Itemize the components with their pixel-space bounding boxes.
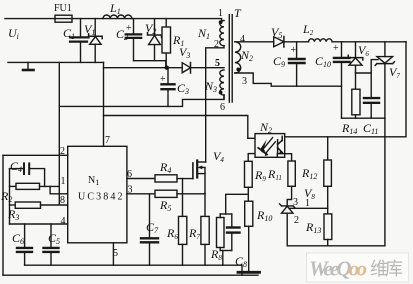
svg-text:3: 3	[293, 197, 298, 208]
wire: pin 3 secondary return	[235, 73, 342, 86]
svg-text:1: 1	[61, 176, 66, 187]
capacitor C6	[17, 224, 32, 265]
wire: output right rail and long return	[285, 42, 406, 137]
wire: input return	[8, 61, 104, 63]
wire: rail 2 / pin 7 VCC line	[103, 62, 105, 146]
svg-text:WeeQoo: WeeQoo	[309, 257, 367, 281]
capacitor C5	[44, 224, 59, 265]
capacitor C9	[289, 42, 305, 86]
resistor R10	[245, 187, 253, 272]
resistor R3	[10, 202, 68, 208]
wire: TL431 ref line	[290, 207, 328, 209]
capacitor C4	[10, 163, 45, 186]
resistor R5	[127, 190, 205, 197]
wire: clamp rail from pin7 rail	[104, 67, 167, 69]
wire: V6 V7 C11 link	[356, 60, 379, 73]
resistor R13	[324, 208, 332, 246]
diode V1 (zener)	[89, 19, 103, 63]
node: clamp junction dot	[165, 66, 169, 70]
node: dot pin 1	[219, 20, 223, 24]
transformer winding N3	[220, 70, 224, 95]
capacitor C2	[126, 19, 142, 61]
wire: output box bottom bus	[342, 117, 385, 119]
diode V7 (zener)	[375, 42, 394, 118]
svg-text:5: 5	[113, 248, 118, 259]
diode V5	[274, 37, 309, 48]
svg-text:6: 6	[127, 169, 132, 180]
wire: AC input top rail	[5, 19, 222, 21]
wire: C2 V2 bottoms to clamp node	[134, 61, 166, 68]
wire: pin 2 line to left border	[3, 154, 68, 156]
wire: C3 ground line with step to pin 6	[59, 95, 224, 106]
transformer winding N1	[220, 21, 224, 46]
wire: pin 5 stub	[112, 243, 114, 265]
capacitor C1	[70, 19, 89, 63]
svg-text:2: 2	[214, 39, 219, 50]
svg-text:3: 3	[128, 185, 133, 196]
wire: left border down to bottom	[2, 155, 4, 275]
resistor R8 and capacitor C8 parallel	[217, 194, 249, 265]
svg-text:6: 6	[220, 102, 225, 113]
diode V3	[167, 63, 224, 74]
svg-text:4: 4	[240, 34, 245, 45]
svg-text:+: +	[291, 45, 297, 56]
capacitor C3	[162, 68, 175, 107]
svg-text:3: 3	[242, 76, 247, 87]
wire: ground bus	[25, 265, 242, 275]
wire: aux line B to optocoupler	[104, 116, 256, 139]
inductor L2	[309, 39, 407, 42]
wire: left comp vertical	[9, 169, 11, 224]
capacitor C7	[141, 194, 158, 265]
node: dot pin 3	[236, 68, 240, 72]
svg-text:+: +	[160, 74, 166, 85]
svg-text:7: 7	[105, 135, 110, 146]
svg-text:+: +	[126, 23, 132, 34]
wire: pin1 row	[50, 186, 68, 193]
diode V2 (zener)	[148, 19, 162, 61]
wire: rail 1 (return down)	[58, 62, 60, 204]
node: dot N3 bottom	[219, 91, 223, 95]
svg-text:维库: 维库	[370, 259, 403, 279]
IC N1 UC3842 box	[68, 146, 127, 243]
svg-text:1: 1	[218, 8, 223, 19]
resistor R11	[277, 154, 295, 206]
svg-text:+: +	[333, 43, 339, 54]
inductor L1	[103, 15, 132, 19]
capacitor C10	[334, 42, 350, 118]
ground	[23, 62, 34, 70]
wire: output minus drop to TL431 loop	[384, 118, 386, 246]
resistor R7	[201, 193, 209, 265]
ground: R10 bar	[238, 271, 260, 274]
TL431 V8	[280, 204, 296, 246]
resistor R2	[10, 183, 60, 189]
fuse FU1	[55, 15, 72, 22]
wire: outer bottom	[3, 274, 258, 276]
resistor R14	[352, 73, 360, 118]
transformer winding N2	[235, 42, 241, 73]
MOSFET V4	[193, 161, 206, 194]
svg-text:4: 4	[61, 216, 66, 227]
wire: pin 4 output	[235, 41, 274, 43]
svg-text:2: 2	[60, 146, 65, 157]
transformer T core	[229, 15, 232, 102]
resistor R6	[179, 179, 187, 266]
wire: pin 4 row	[10, 223, 68, 225]
wire: pin 6 stub	[223, 95, 225, 99]
svg-text:8: 8	[60, 195, 65, 206]
diode V6 (zener)	[348, 42, 363, 73]
svg-text:FU1: FU1	[54, 3, 72, 14]
wire: bottom right return	[287, 245, 385, 247]
resistor R4	[127, 175, 193, 182]
resistor R9	[245, 154, 255, 188]
capacitor C11	[364, 73, 379, 118]
optocoupler N2	[255, 134, 285, 158]
wire: pin 2 to MOSFET drain	[206, 46, 224, 162]
svg-text:5: 5	[215, 58, 220, 69]
svg-text:2: 2	[294, 215, 299, 226]
resistor R12	[324, 137, 332, 209]
svg-text:1: 1	[305, 198, 310, 209]
resistor R1	[162, 19, 171, 68]
watermark WeeQoo	[307, 253, 409, 282]
